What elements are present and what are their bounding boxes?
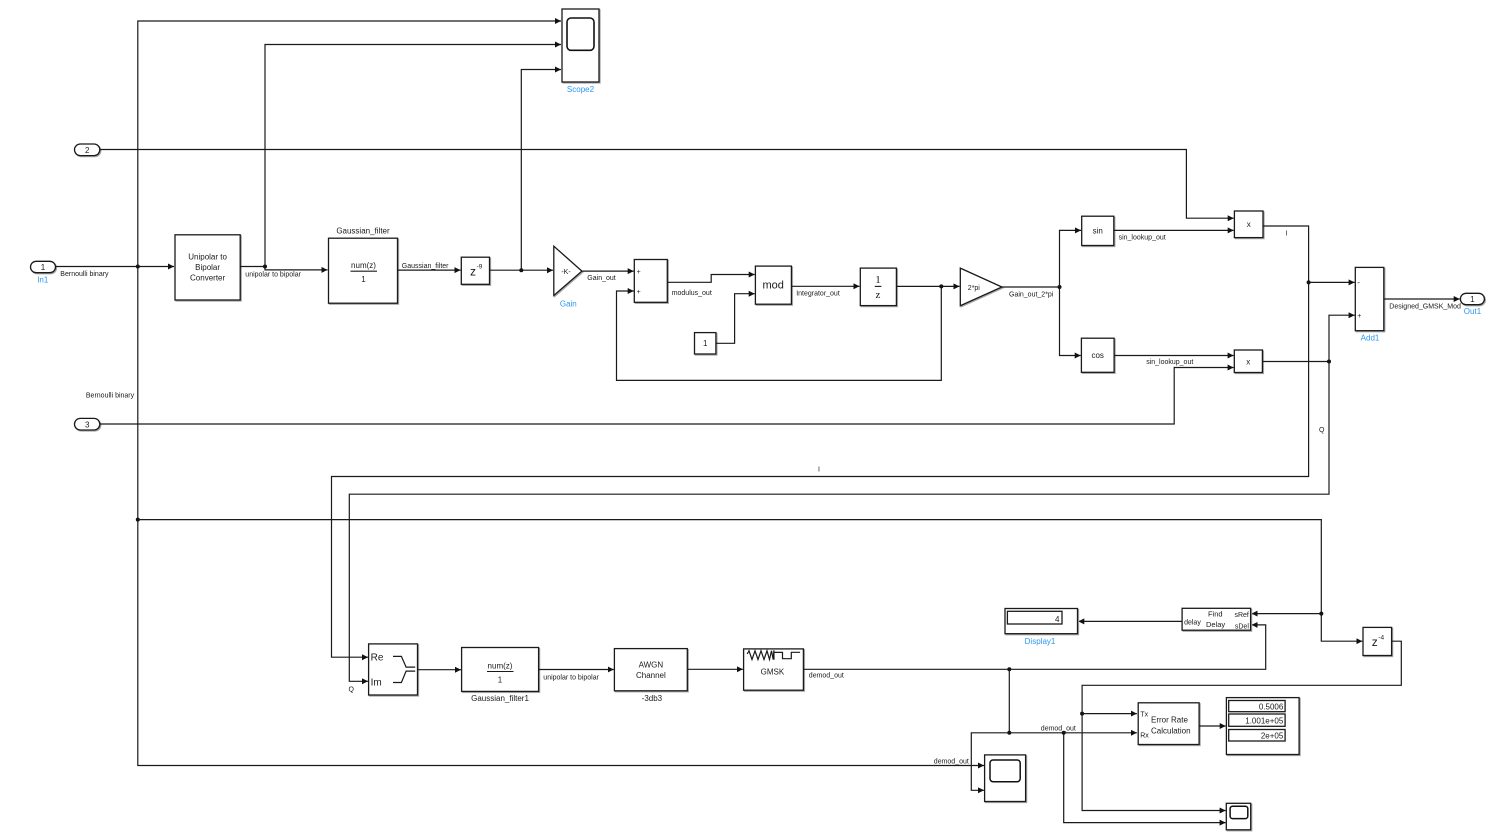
block mod [755, 266, 791, 304]
svg-text:AWGN: AWGN [639, 661, 664, 670]
svg-text:Tx: Tx [1140, 711, 1148, 718]
wire Sum to mod input1 [667, 275, 754, 283]
wire 2*pi out to junction [1002, 286, 1060, 288]
svg-text:-3db3: -3db3 [642, 694, 663, 703]
svg-text:modulus_out: modulus_out [672, 290, 712, 297]
svg-text:Converter: Converter [190, 274, 225, 283]
wire junction up to Add1 plus input [1329, 315, 1355, 361]
node junction demod_out [1007, 667, 1011, 671]
svg-text:1: 1 [703, 339, 708, 348]
svg-text:1: 1 [361, 275, 366, 284]
svg-text:Gain_out: Gain_out [587, 275, 615, 282]
svg-text:Gain: Gain [560, 300, 577, 309]
svg-text:Re: Re [371, 653, 384, 664]
block 1/z Integrator [860, 268, 896, 306]
svg-text:1: 1 [41, 263, 46, 272]
wire junction to Add1 minus input [1309, 281, 1355, 283]
node junction tap to Find Delay [136, 518, 140, 522]
svg-text:unipolar to bipolar: unipolar to bipolar [245, 271, 301, 278]
wire demod to Rx [1009, 732, 1137, 734]
wire Gaussian_filter1 to AWGN [539, 669, 614, 671]
wire junction to Tx [1082, 713, 1137, 715]
block constant 1 [695, 333, 716, 354]
node junction demod to small scope [1062, 731, 1066, 735]
svg-text:sin_lookup_out: sin_lookup_out [1119, 234, 1166, 241]
wire In1 to Unipolar converter [56, 266, 175, 268]
wire demod to Scope input2 [971, 733, 1009, 791]
block Unipolar to Bipolar Converter [175, 235, 240, 300]
wire junction down to small scope input1 [1082, 714, 1226, 811]
svg-text:demod_out: demod_out [809, 673, 844, 680]
svg-text:Bernoulli binary: Bernoulli binary [60, 271, 109, 278]
wire Gaussian_filter to Z-9 [398, 269, 461, 271]
svg-text:demod_out: demod_out [1041, 726, 1076, 733]
svg-text:num(z): num(z) [351, 261, 376, 270]
wire unipolar out up to Scope2 input2 [265, 45, 561, 267]
block Sum [634, 260, 667, 303]
wire 1/z to 2*pi [896, 285, 959, 287]
svg-text:Designed_GMSK_Mod: Designed_GMSK_Mod [1389, 304, 1461, 311]
svg-text:demod_out: demod_out [934, 759, 969, 766]
svg-text:sDel: sDel [1235, 623, 1249, 630]
svg-text:Q: Q [349, 686, 355, 693]
wire into sRef [1252, 613, 1322, 615]
port In3 [75, 418, 100, 430]
svg-text:4: 4 [1055, 615, 1060, 624]
block Find Delay [1182, 608, 1251, 630]
svg-text:sin_lookup_out: sin_lookup_out [1146, 359, 1193, 366]
svg-text:Im: Im [371, 678, 382, 689]
svg-text:In1: In1 [37, 275, 49, 284]
wire Gain to Sum input1 [582, 270, 634, 272]
svg-text:Q: Q [1319, 427, 1325, 434]
block Error Rate Calculation [1138, 703, 1199, 745]
svg-text:1: 1 [498, 675, 503, 684]
block Product I [1234, 211, 1263, 238]
svg-text:2*pi: 2*pi [968, 285, 981, 292]
wire demod down to small scope input2 [1064, 733, 1226, 823]
block Gaussian_filter1 [462, 648, 539, 692]
node junction Z-9 out [519, 268, 523, 272]
block Add1 [1355, 267, 1384, 330]
block Product Q [1234, 350, 1262, 373]
svg-text:2: 2 [85, 146, 90, 155]
svg-text:I: I [818, 467, 820, 474]
node junction In1 [136, 265, 140, 269]
svg-text:I: I [1286, 230, 1288, 237]
svg-text:+: + [637, 289, 641, 296]
svg-text:3: 3 [85, 420, 90, 429]
wire Error Rate to Display [1199, 725, 1226, 727]
svg-text:z: z [876, 289, 881, 301]
svg-text:Gaussian_filter: Gaussian_filter [336, 227, 390, 236]
svg-text:cos: cos [1091, 351, 1103, 360]
node junction Q [1327, 360, 1331, 364]
block Real-Imag to Complex [369, 644, 418, 695]
wire junction up to sin [1060, 230, 1082, 287]
svg-text:Display1: Display1 [1025, 637, 1056, 646]
wire tap to sRef and Z-4 [138, 520, 1363, 642]
port Out1 [1460, 293, 1484, 304]
wire port2 to Product I input1 [100, 150, 1234, 219]
node junction unipolar out [263, 265, 267, 269]
svg-text:-4: -4 [1378, 634, 1384, 641]
svg-text:Bipolar: Bipolar [195, 263, 220, 272]
wire port3 to Product Q input2 [100, 368, 1234, 425]
wire Z-9 to Gain [490, 269, 554, 271]
svg-text:-K-: -K- [561, 269, 571, 276]
svg-text:z: z [1372, 635, 1378, 649]
block Gain triangle [554, 246, 582, 295]
svg-text:Add1: Add1 [1361, 333, 1380, 342]
wire constant 1 to mod input2 [716, 294, 755, 344]
svg-text:Delay: Delay [1206, 620, 1225, 629]
wire demod junction down [1008, 669, 1010, 733]
port In2 [75, 144, 100, 156]
svg-text:x: x [1246, 357, 1250, 366]
wire Z-9 out up to Scope2 input3 [521, 70, 561, 271]
wire I line down to Re input [332, 282, 1309, 657]
block GMSK demod [744, 649, 804, 690]
svg-text:1.001e+05: 1.001e+05 [1245, 717, 1284, 726]
svg-text:1: 1 [875, 274, 881, 286]
svg-text:unipolar to bipolar: unipolar to bipolar [543, 674, 599, 681]
block sin [1082, 216, 1114, 245]
svg-text:sRef: sRef [1234, 612, 1248, 619]
wire In1 up to Scope2 input1 [138, 21, 561, 267]
wire sin to Product I input2 [1114, 229, 1234, 231]
wire Unipolar out to Gaussian_filter [240, 267, 327, 270]
svg-text:1: 1 [1470, 295, 1475, 304]
svg-text:mod: mod [762, 280, 783, 292]
svg-text:Integrator_out: Integrator_out [796, 290, 840, 297]
block Z-9 delay [461, 257, 489, 284]
svg-text:Out1: Out1 [1464, 307, 1482, 316]
wire feedback 1/z out to Sum input2 [617, 286, 942, 380]
block cos [1081, 338, 1114, 372]
wire Product Q out to junction [1262, 361, 1329, 363]
node junction demod lower [1007, 731, 1011, 735]
node junction I to Add1 [1307, 280, 1311, 284]
svg-text:-9: -9 [477, 263, 483, 270]
svg-text:+: + [637, 269, 641, 276]
svg-text:+: + [1357, 313, 1361, 320]
node junction sRef [1319, 612, 1323, 616]
svg-text:x: x [1247, 220, 1251, 229]
svg-text:GMSK: GMSK [761, 667, 785, 676]
svg-text:delay: delay [1184, 620, 1201, 627]
port In1 [31, 261, 56, 272]
svg-text:Gaussian_filter1: Gaussian_filter1 [471, 694, 529, 703]
svg-text:Gain_out_2*pi: Gain_out_2*pi [1009, 291, 1054, 298]
wire Product I out to Add1 minus and down [1263, 226, 1309, 282]
block 2*pi gain triangle [960, 268, 1002, 306]
wire Find Delay delay out to Display1 [1078, 620, 1182, 622]
svg-text:Channel: Channel [636, 671, 666, 680]
block Display BER values [1226, 698, 1299, 755]
node junction Tx [1080, 712, 1084, 716]
wire In1 down long to Scope demod input1 [138, 267, 984, 766]
node junction 1/z out [939, 284, 943, 288]
block Scope small [1226, 803, 1250, 830]
wire Q line down to Im input [349, 362, 1329, 682]
wire Z-4 out to Tx and small scope [1082, 641, 1401, 713]
node junction 2*pi out [1058, 285, 1062, 289]
svg-text:Calculation: Calculation [1151, 726, 1191, 735]
wire ReIm to Gaussian_filter1 [418, 669, 462, 671]
wire cos to Product Q input1 [1114, 355, 1234, 357]
wire GMSK demod_out to sDel [803, 625, 1265, 669]
svg-text:Error Rate: Error Rate [1151, 716, 1188, 725]
block AWGN Channel [614, 649, 687, 691]
svg-text:Find: Find [1208, 610, 1223, 619]
svg-text:Rx: Rx [1140, 732, 1149, 739]
block Gaussian_filter [329, 238, 398, 303]
svg-text:Gaussian_filter: Gaussian_filter [402, 263, 449, 270]
svg-text:num(z): num(z) [488, 661, 513, 670]
block Scope demod [985, 755, 1026, 802]
svg-text:sin: sin [1093, 226, 1103, 235]
block Display1 [1005, 609, 1078, 634]
wire junction down to cos [1060, 287, 1081, 356]
block Scope2 [562, 9, 599, 82]
svg-text:Unipolar to: Unipolar to [188, 253, 227, 262]
svg-text:z: z [470, 264, 476, 278]
svg-text:Bernoulli binary: Bernoulli binary [86, 392, 135, 399]
wire AWGN to GMSK [687, 668, 743, 670]
wire Add1 to Out1 [1384, 298, 1460, 300]
wire mod to 1/z [791, 285, 859, 287]
block Z-4 delay [1363, 627, 1392, 655]
svg-text:-: - [1357, 278, 1360, 287]
svg-text:Scope2: Scope2 [567, 85, 595, 94]
svg-text:2e+05: 2e+05 [1261, 732, 1284, 741]
svg-text:0.5006: 0.5006 [1259, 702, 1284, 711]
